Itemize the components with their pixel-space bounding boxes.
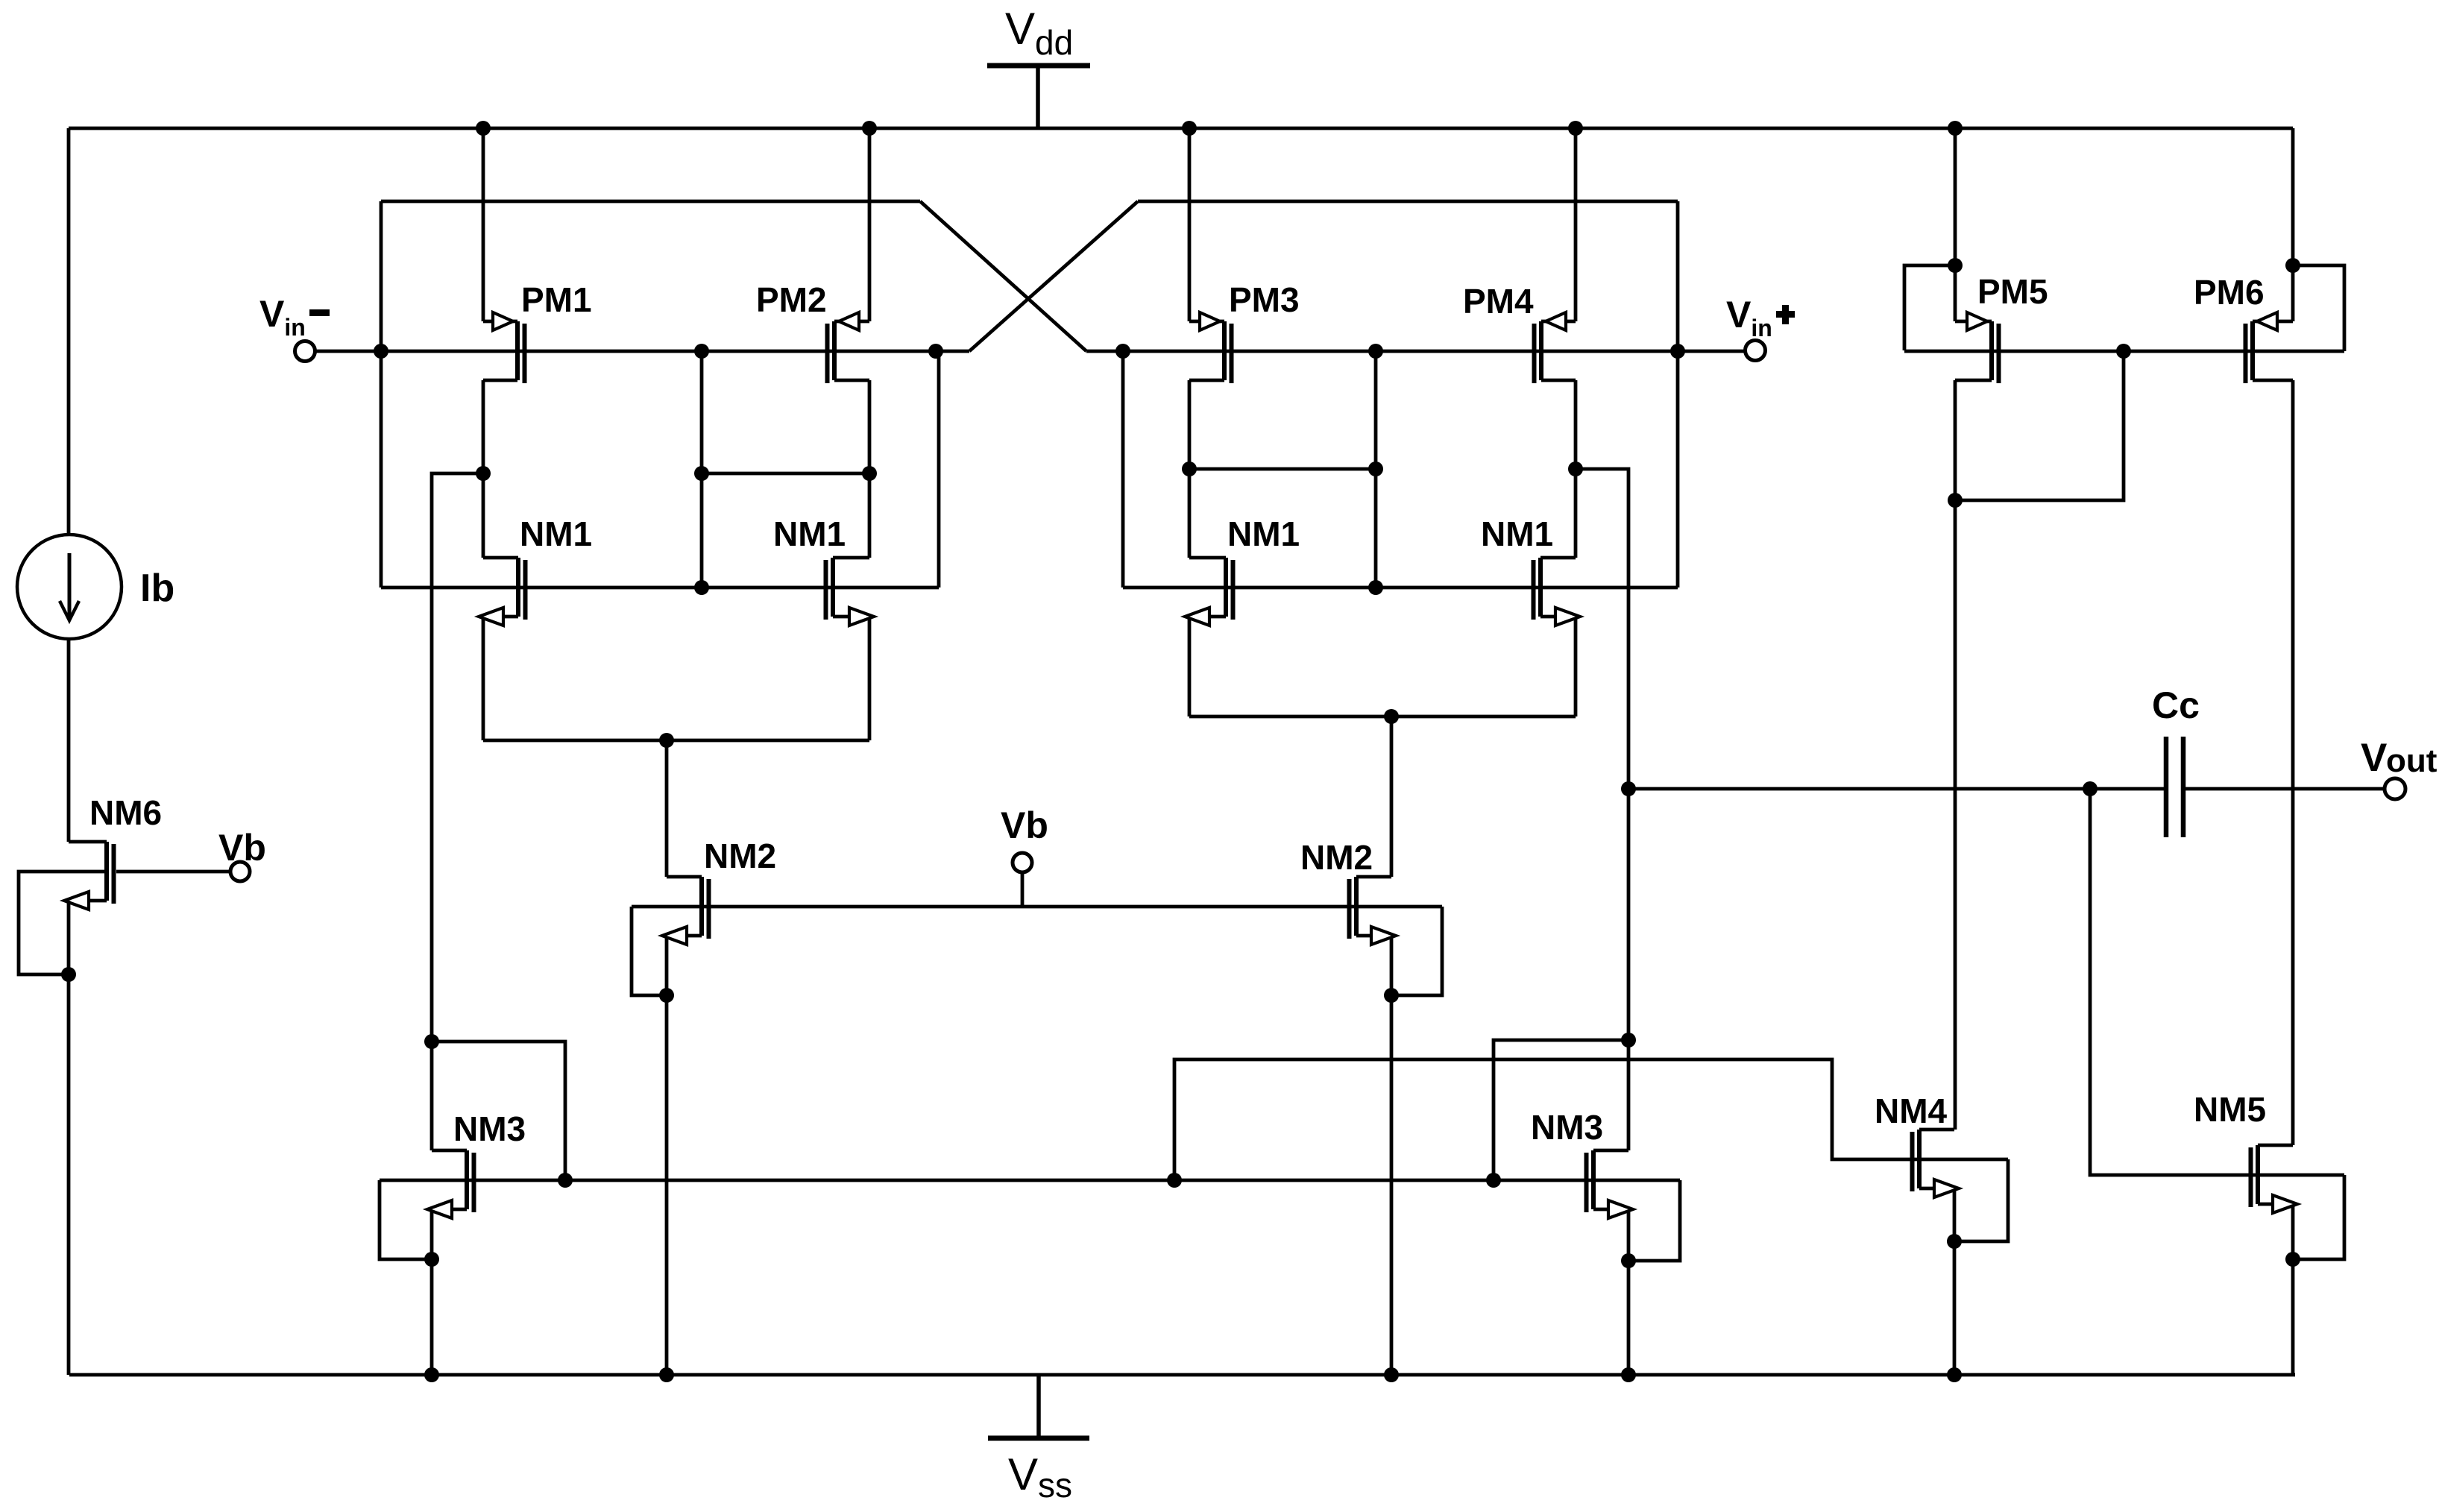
svg-text:Vb: Vb — [218, 827, 266, 869]
wire NM4 gate feed — [1174, 1059, 2008, 1180]
transistor NM3 right — [1587, 1150, 1634, 1218]
svg-text:NM1: NM1 — [1227, 514, 1300, 553]
wire NM3a drain — [430, 1042, 434, 1150]
junction Vss rail NM2a — [659, 1367, 674, 1382]
terminal Vin- — [295, 341, 315, 362]
terminal Vb center — [1013, 853, 1032, 872]
junction NM6 source/loop — [61, 967, 76, 982]
wire Vin- riser — [380, 201, 383, 588]
svg-text:PM3: PM3 — [1229, 280, 1300, 319]
wire gate line right riser left — [937, 351, 941, 588]
wire NM1 right gate line — [1123, 586, 1678, 590]
junction NM2b source loop — [1384, 988, 1399, 1003]
junction PM2 drain node — [862, 466, 877, 481]
wire NM6 source to Vss rail — [67, 901, 71, 1375]
wire left tail line — [483, 739, 869, 743]
junction rail PM2 — [862, 121, 877, 136]
junction gate line left riser right — [1115, 344, 1130, 359]
wire NM3a gate-source loop — [380, 1180, 432, 1259]
wire NM5 source to Vss — [2291, 1205, 2295, 1375]
wire mid link vertical left — [700, 351, 704, 588]
junction Vss rail NM4 — [1947, 1367, 1962, 1382]
transistor NM4 — [1913, 1130, 1960, 1197]
wire node A to NM3 drain branch — [432, 473, 483, 1042]
wire NM1d drain — [1574, 469, 1578, 558]
junction PM5 drain tie — [1948, 493, 1963, 508]
junction PM4 drain node — [1568, 462, 1583, 476]
junction PM5 gate line — [2116, 344, 2131, 359]
wire NM6 gate-source loop — [19, 872, 107, 974]
terminal Vin+ — [1746, 341, 1766, 361]
wire NM2a gate-source loop — [632, 907, 667, 995]
junction Vin- riser — [374, 344, 388, 359]
junction NM3b source loop — [1621, 1253, 1636, 1268]
svg-text:NM1: NM1 — [1481, 514, 1553, 553]
svg-text:V: V — [2361, 736, 2387, 780]
wire NM1b drain — [868, 473, 872, 558]
wire PM6 drain to NM5 drain — [2291, 380, 2295, 1145]
wire NM1 left gate line — [381, 586, 939, 590]
junction Vout node start — [1621, 781, 1636, 796]
junction Vss rail NM2b — [1384, 1367, 1399, 1382]
wire PM5 drain to NM4 drain — [1954, 380, 1957, 1130]
wire Vout line left of Cc — [1628, 787, 2166, 791]
junction NM3a source loop — [424, 1252, 439, 1267]
wire NM2b gate-source loop — [1391, 907, 1442, 995]
wire NM3 gate line — [380, 1179, 1680, 1182]
junction PM1 drain node — [476, 466, 491, 481]
transistor NM2 left — [662, 877, 709, 945]
wire NM1c source — [1188, 617, 1192, 716]
wire NM3b gate-source loop — [1628, 1180, 1680, 1261]
svg-text:NM4: NM4 — [1875, 1092, 1948, 1130]
wire left edge from Vdd rail to Ib — [67, 128, 71, 536]
wire NM5 gate riser — [2090, 789, 2344, 1175]
svg-text:PM1: PM1 — [521, 280, 592, 319]
wire mid link vertical right — [1374, 351, 1378, 588]
junction NM1 gate line mid left — [694, 580, 709, 595]
wire NM2 gate bus — [632, 905, 1442, 909]
svg-text:PM6: PM6 — [2194, 273, 2265, 312]
svg-text:NM1: NM1 — [520, 514, 592, 553]
svg-text:PM2: PM2 — [756, 280, 827, 319]
junction NM3b drain tie — [1621, 1033, 1636, 1048]
wire Ib to NM6 drain — [67, 637, 71, 842]
wire cross diagonal left-to-right — [920, 201, 1086, 351]
junction right tail — [1384, 709, 1399, 724]
wire Vdd rail — [69, 127, 2293, 130]
wire PM6 gate-source loop — [2293, 265, 2344, 351]
wire NM1a source — [482, 617, 485, 740]
wire NM4 gate-source loop — [1954, 1159, 2008, 1241]
wire left tail to NM2a drain — [665, 740, 669, 877]
junction PM6 source node — [2285, 258, 2300, 273]
svg-text:Vb: Vb — [1001, 804, 1048, 846]
wire PM4 source from rail — [1574, 128, 1578, 321]
wire NM3a drain-gate tie — [432, 1042, 565, 1180]
junction NM2a source loop — [659, 988, 674, 1003]
transistor NM2 right — [1350, 877, 1397, 945]
wire gate line left riser right — [1121, 351, 1125, 588]
svg-text:NM3: NM3 — [1531, 1108, 1603, 1147]
transistor NM3 left — [427, 1150, 474, 1218]
junction rail PM5 — [1948, 121, 1963, 136]
transistor NM1 d — [1534, 558, 1581, 626]
wire mid link to PM2 drain — [702, 472, 869, 476]
svg-text:NM2: NM2 — [704, 837, 776, 875]
wire Vin+ line — [1086, 350, 1746, 353]
junction rail PM1 — [476, 121, 491, 136]
svg-text:NM3: NM3 — [453, 1109, 526, 1148]
junction gate line right riser left — [928, 344, 943, 359]
transistor NM1 c — [1185, 558, 1233, 626]
svg-text:out: out — [2386, 743, 2438, 779]
wire PM4 drain down — [1574, 380, 1578, 469]
wire NM1d source — [1574, 617, 1578, 716]
transistor PM6 — [2246, 312, 2294, 383]
svg-text:NM6: NM6 — [89, 793, 162, 832]
junction rail PM4 — [1568, 121, 1583, 136]
wire PM1 drain down — [482, 380, 485, 473]
transistor PM1 — [483, 312, 525, 383]
transistor NM6 — [64, 842, 114, 910]
svg-text:Cc: Cc — [2152, 684, 2200, 726]
junction NM3 gate line tie left — [558, 1173, 573, 1188]
svg-text:Ib: Ib — [140, 567, 174, 610]
wire PM3 drain down — [1188, 380, 1192, 469]
transistor PM3 — [1189, 312, 1232, 383]
junction NM4 feed tap — [1167, 1173, 1182, 1188]
wire PM2 drain down — [868, 380, 872, 473]
wire NM4 source to Vss — [1953, 1189, 1957, 1375]
wire NM6 gate to Vb terminal — [116, 870, 230, 874]
Vss supply symbol — [988, 1375, 1089, 1438]
wire PM5-PM6 gate line — [1904, 350, 2344, 353]
wire cross diagonal right-to-left — [969, 201, 1138, 351]
wire NM1c drain — [1188, 469, 1192, 558]
junction Vin+ riser — [1670, 344, 1685, 359]
wire right tail to NM2b drain — [1390, 716, 1394, 877]
junction left tail — [659, 733, 674, 748]
wire NM5 gate-source loop — [2293, 1175, 2344, 1259]
wire PM3 source from rail — [1188, 128, 1192, 321]
junction mid-629 right — [1368, 462, 1383, 476]
junction NM3a drain tie — [424, 1034, 439, 1049]
junction PM5 source node — [1948, 258, 1963, 273]
wire NM3b drain-gate tie — [1494, 1040, 1628, 1180]
wire PM5 gate-drain tie — [1955, 351, 2124, 500]
wire NM2b source to Vss — [1390, 936, 1394, 1375]
junction Vss rail NM3b — [1621, 1367, 1636, 1382]
transistor PM5 — [1955, 312, 1999, 383]
Vdd supply symbol — [987, 66, 1090, 128]
terminal Vb left — [230, 862, 250, 881]
wire PM5 gate-source loop — [1904, 265, 1955, 350]
junction Vss rail NM3a — [424, 1367, 439, 1382]
transistor NM1 b — [826, 558, 875, 626]
terminal Vout — [2385, 778, 2405, 799]
transistor PM4 — [1535, 312, 1576, 383]
wire PM4 drain to NM3b — [1576, 469, 1628, 1150]
svg-text:NM2: NM2 — [1300, 838, 1373, 877]
junction NM5 source loop — [2285, 1252, 2300, 1267]
junction PM3 drain node — [1182, 462, 1197, 476]
svg-text:NM5: NM5 — [2194, 1090, 2266, 1129]
wire NM3a source to Vss — [430, 1210, 434, 1375]
wire mid link to PM3 drain — [1189, 467, 1376, 471]
wire PM2 source from rail — [868, 128, 872, 321]
wire PM5 source from rail — [1954, 128, 1957, 321]
transistor NM1 a — [479, 558, 526, 626]
junction Vin- line mid — [694, 344, 709, 359]
wire NM1a drain — [482, 473, 485, 558]
transistor NM5 — [2251, 1145, 2298, 1213]
wire upper cross line left — [381, 200, 920, 204]
wire Vss rail — [69, 1373, 2295, 1377]
wire Vout line right of Cc — [2183, 787, 2385, 791]
junction Vin+ line mid — [1368, 344, 1383, 359]
capacitor Cc — [2166, 737, 2183, 837]
current source Ib — [17, 535, 122, 639]
svg-text:PM5: PM5 — [1977, 272, 2048, 311]
svg-text:PM4: PM4 — [1463, 282, 1534, 321]
wire upper cross line right — [1138, 200, 1678, 204]
transistor PM2 — [828, 312, 870, 383]
junction NM3 gate line tie right — [1486, 1173, 1501, 1188]
wire NM2a source to Vss — [665, 936, 669, 1375]
junction NM1 gate line mid right — [1368, 580, 1383, 595]
junction NM4 source loop — [1947, 1234, 1962, 1249]
wire Vin+ riser — [1676, 201, 1680, 588]
junction Vout line NM5 gate — [2083, 781, 2097, 796]
junction mid-635 left — [694, 466, 709, 481]
wire Vin- line — [315, 350, 969, 353]
wire Vb tap — [1021, 872, 1025, 907]
wire PM1 source from rail — [482, 128, 485, 321]
wire PM6 source from rail — [2291, 128, 2295, 321]
junction rail PM3 — [1182, 121, 1197, 136]
svg-text:NM1: NM1 — [773, 514, 846, 553]
wire NM3b source to Vss — [1627, 1210, 1631, 1375]
wire right tail line — [1189, 715, 1576, 719]
wire NM1b source — [868, 617, 872, 740]
